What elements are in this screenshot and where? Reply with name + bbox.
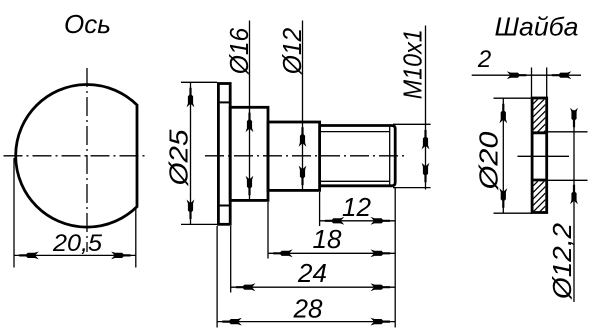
- extension line bottom: [393, 187, 431, 189]
- svg-text:18: 18: [313, 224, 342, 254]
- centerline vertical (left view): [86, 68, 88, 252]
- dimension 28: [217, 321, 395, 323]
- extension line left: [531, 68, 533, 98]
- svg-text:Ø16: Ø16: [224, 27, 254, 75]
- dimension line Ø12,2: [573, 110, 575, 302]
- washer centerline: [518, 155, 570, 157]
- extension line flange right: [230, 226, 232, 293]
- svg-text:Ø12: Ø12: [277, 27, 307, 75]
- extension line right: [546, 68, 548, 98]
- extension line bottom: [181, 223, 217, 225]
- svg-text:12: 12: [342, 192, 371, 222]
- section Ø16: [230, 107, 268, 200]
- washer outline: [532, 98, 547, 213]
- axle head outline (left view, circle with flat): [16, 85, 137, 228]
- Ø16 dimension: [249, 21, 251, 201]
- svg-text:M10x1: M10x1: [398, 29, 428, 99]
- svg-text:24: 24: [297, 258, 327, 288]
- svg-text:Ø20: Ø20: [474, 131, 504, 191]
- extension line bottom: [494, 212, 533, 214]
- extension line right of 20,5: [135, 207, 137, 268]
- extension line flange left: [216, 226, 218, 328]
- extension line thread end: [394, 188, 396, 328]
- section Ø12: [268, 122, 320, 190]
- extension line top: [494, 97, 533, 99]
- thread minor diameter top line: [320, 131, 390, 133]
- dimension 18: [268, 252, 395, 254]
- thread minor diameter bottom line: [320, 180, 390, 182]
- thread chamfer line: [389, 126, 391, 186]
- flat chord lower edge: [220, 205, 230, 207]
- dimension line 2: [472, 74, 581, 76]
- extension line Ø16/Ø12 step: [267, 202, 269, 259]
- svg-text:Ось: Ось: [64, 9, 111, 39]
- extension line top: [393, 123, 431, 125]
- extension line Ø12/thread step: [319, 192, 321, 226]
- flange Ø25: [218, 84, 230, 225]
- extension line top: [181, 81, 217, 83]
- svg-text:2: 2: [477, 46, 491, 73]
- centerline (middle view): [205, 155, 408, 157]
- dimension 24: [231, 286, 396, 288]
- svg-text:20,5: 20,5: [52, 230, 103, 257]
- flat chord upper edge: [220, 101, 230, 103]
- svg-text:Шайба: Шайба: [495, 12, 579, 42]
- svg-text:Ø25: Ø25: [164, 129, 194, 187]
- Ø12 dimension: [302, 21, 304, 191]
- dimension 12: [320, 220, 396, 222]
- dimension line Ø25: [190, 82, 192, 224]
- dimension line 20,5: [14, 254, 136, 256]
- dimension line M10x1: [425, 26, 427, 190]
- centerline horizontal (left view): [4, 155, 149, 157]
- extension line hole bottom: [547, 179, 588, 181]
- svg-text:Ø12,2: Ø12,2: [547, 222, 577, 300]
- extension line left of 20,5: [13, 158, 15, 268]
- extension line hole top: [547, 131, 588, 133]
- hatching top band: [527, 83, 554, 225]
- dimension line Ø20: [502, 98, 504, 213]
- washer hole top edge: [531, 131, 548, 134]
- threaded section M10x1 outline: [320, 126, 396, 186]
- washer hole bottom edge: [531, 179, 548, 182]
- svg-text:28: 28: [293, 294, 323, 324]
